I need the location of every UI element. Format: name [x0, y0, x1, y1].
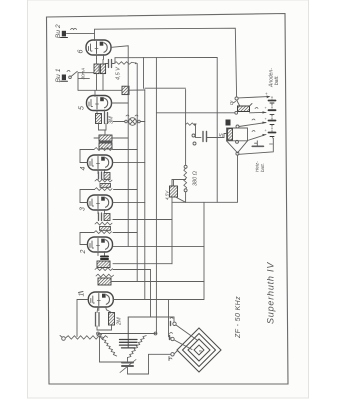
svg-text:S: S	[219, 133, 225, 137]
resistor stage4 a	[95, 179, 112, 182]
potentiometer	[60, 334, 108, 341]
output choke Dr	[233, 97, 252, 114]
loudspeaker S	[226, 120, 248, 156]
transformer below V6	[94, 59, 106, 74]
filament return wire	[239, 139, 273, 155]
label ZF 50kHz	[235, 296, 242, 339]
wire to terminal 3	[149, 353, 171, 355]
oscillator coil stage2	[98, 278, 204, 285]
svg-text:30mA: 30mA	[81, 68, 86, 80]
label 4,5V bias	[165, 190, 170, 200]
grid resistor top row	[186, 123, 197, 137]
svg-text:3: 3	[80, 207, 87, 211]
anode battery arrow	[238, 92, 270, 98]
svg-text:Bu 2: Bu 2	[55, 24, 62, 38]
svg-text:1: 1	[79, 293, 86, 297]
coupling capacitor C out	[192, 132, 227, 146]
capacitor stage6	[105, 58, 115, 68]
resistor stage3 a	[95, 222, 112, 225]
IF transformer T5-T4	[94, 130, 128, 149]
screen bus upper drop	[143, 58, 145, 89]
wire Bu1 to filament bus	[78, 73, 94, 91]
middle bus vertical f	[171, 180, 173, 264]
wire V4 grid left	[80, 150, 94, 163]
wire stage6 loop	[97, 74, 104, 91]
coupling stage4	[99, 172, 111, 180]
grid resistor 380	[184, 89, 187, 202]
tube V2	[88, 237, 113, 256]
frame coil V left arm	[98, 334, 117, 357]
oscillator trimmer below apex	[120, 358, 136, 375]
wire jack Bu2 to tube V6	[67, 32, 95, 34]
label 1	[79, 292, 86, 297]
label Bu2	[55, 24, 62, 38]
middle bus vertical c	[144, 90, 146, 300]
IF coil stage4	[100, 184, 111, 188]
svg-text:+: +	[264, 92, 269, 95]
grid resistor stage6	[114, 62, 137, 65]
label 4	[80, 167, 87, 171]
resistor filament rheostat	[122, 86, 129, 94]
middle bus vertical g	[203, 202, 205, 299]
wire to terminal 1	[128, 317, 174, 322]
wire to terminal 2	[169, 300, 171, 339]
resistor stage2 b	[96, 274, 113, 277]
label 3	[80, 207, 87, 211]
switch S1 near Bu1	[67, 70, 77, 78]
diamond frame antenna	[177, 328, 221, 372]
wire speaker bottom tap	[248, 134, 267, 141]
tube V4	[88, 155, 113, 174]
label 3M	[109, 116, 115, 124]
svg-text:2: 2	[80, 250, 87, 255]
resistor above V4	[94, 148, 137, 151]
coupling elements below V5	[96, 113, 108, 131]
svg-text:4,5V: 4,5V	[165, 190, 170, 200]
svg-text:batt.: batt.	[274, 75, 280, 85]
middle bus vertical a	[112, 46, 129, 247]
svg-text:380 Ω: 380 Ω	[193, 171, 199, 186]
tap wire squiggles	[252, 108, 258, 132]
tube V5	[87, 96, 112, 115]
antenna terminal 3	[169, 351, 178, 361]
jack Bu2	[61, 28, 77, 37]
blocking cap stage2	[101, 257, 108, 260]
heiz capacitor	[252, 141, 272, 147]
svg-text:ZF - 50 KHz: ZF - 50 KHz	[235, 296, 242, 339]
IF coil stage3	[100, 227, 111, 231]
jack Bu1	[61, 75, 68, 82]
svg-text:Heiz-: Heiz-	[255, 161, 260, 172]
border frame	[47, 14, 289, 385]
bias rail corner	[172, 155, 238, 202]
wire stage3 to bus f	[113, 219, 172, 221]
V top chord	[97, 332, 157, 335]
meter stage6	[81, 68, 86, 80]
svg-text:Bu 1: Bu 1	[55, 68, 62, 82]
wire V6 plate to top rail	[95, 28, 237, 97]
wire V5 top	[94, 91, 96, 97]
grid leak resistor stage1	[97, 310, 115, 330]
antenna terminal 2	[170, 333, 193, 350]
wire screen rail	[115, 57, 217, 202]
label a antenna core	[198, 350, 203, 353]
coupling stage3	[99, 213, 111, 221]
bias cell 4,5V	[170, 180, 186, 203]
svg-text:Dr: Dr	[229, 100, 234, 105]
label 6	[78, 50, 85, 54]
label Anodenbatt	[269, 68, 281, 88]
battery plus marks	[263, 106, 268, 132]
grid capacitor stage1	[96, 307, 100, 327]
wire V2 grid left	[80, 233, 94, 245]
svg-text:4,5 V: 4,5 V	[116, 66, 122, 80]
wire oscillator bottom loop	[100, 337, 149, 375]
wire V3 grid left	[80, 190, 95, 203]
wire V4 plate right	[113, 161, 145, 163]
svg-text:2M: 2M	[117, 317, 123, 326]
label 2M	[117, 317, 123, 326]
battery tap column	[269, 101, 276, 137]
svg-text:5: 5	[79, 106, 86, 110]
battery tap dotted joins	[272, 97, 273, 139]
tuning capacitor plates	[120, 317, 138, 348]
wire V1 grid to potentiometer	[77, 300, 88, 337]
label 2	[80, 250, 87, 255]
title Superhuth IV	[266, 262, 276, 324]
resistor stage4 b	[95, 188, 138, 191]
svg-text:3M: 3M	[109, 116, 115, 124]
svg-text:6: 6	[78, 50, 85, 54]
antenna terminal 1	[170, 318, 197, 341]
wire V3 plate right	[113, 202, 145, 204]
label 5	[79, 106, 86, 110]
label Heizbatt	[255, 161, 266, 172]
tube V6	[86, 40, 111, 60]
label 380	[193, 171, 199, 186]
lamp	[113, 115, 145, 125]
frame coil V right arm	[128, 336, 147, 358]
tube V3	[88, 195, 113, 214]
wire speaker top tap	[239, 122, 266, 127]
middle bus vertical e	[150, 270, 152, 318]
middle bus vertical d	[155, 57, 157, 333]
middle bus vertical b	[113, 64, 137, 282]
wire plate row V1	[113, 299, 204, 301]
resistor stage3 b	[94, 231, 137, 234]
label S speaker	[219, 133, 225, 137]
svg-text:batt.: batt.	[260, 163, 265, 172]
anode rail to battery	[156, 111, 266, 113]
label Dr	[229, 100, 234, 105]
tube V1	[88, 292, 113, 311]
wire rheostat to bias bus	[78, 88, 186, 90]
svg-text:Superhuth IV: Superhuth IV	[266, 262, 276, 324]
resistor stage2 a	[95, 268, 151, 271]
wire stage2 to bus f	[113, 263, 172, 265]
bias bus top tie	[172, 179, 186, 181]
wire plate row V2	[113, 245, 204, 247]
label Bu1	[55, 68, 62, 82]
IF transformer stage2	[97, 261, 110, 268]
label 4,5V stage6	[116, 66, 122, 80]
svg-text:4: 4	[80, 167, 87, 171]
wire V5 plate right	[112, 102, 129, 104]
